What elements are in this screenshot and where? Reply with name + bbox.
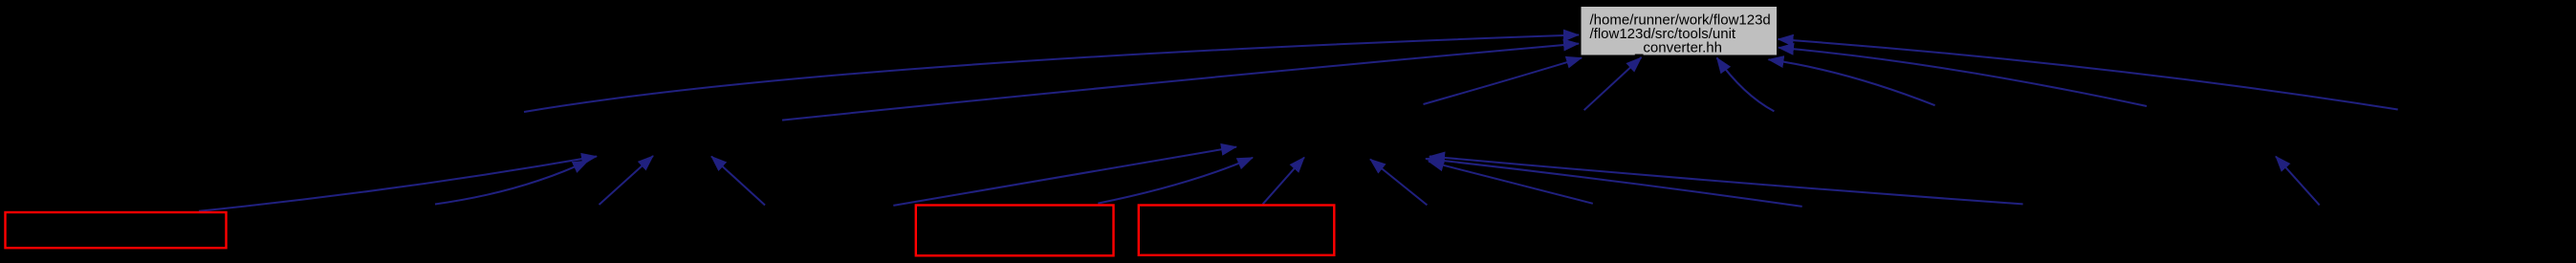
- edge U2: hidden bottom node -> hidden node N1 (left, lower): [435, 161, 588, 204]
- red node 2 (truncated, label hidden): [916, 206, 1114, 256]
- edge S3: hidden bottom node -> hidden node N3 (short): [1429, 162, 1593, 204]
- main node: /home/runner/work/flow123d/flow123d/src/tools/unit_converter.hh: [1581, 7, 1778, 56]
- red node 3 (truncated, label hidden): [1139, 206, 1335, 255]
- edge R2: right hidden node -> main box right edge (lower): [1779, 48, 2147, 106]
- edge M2: hidden node -> main box bottom edge (from right): [1717, 58, 1775, 112]
- edge U3: hidden bottom node -> hidden node N1 (bottom): [600, 156, 654, 205]
- edge Sb: hidden bottom node -> hidden node N3 (middle): [1426, 159, 1802, 207]
- edge T: far right hidden bottom node -> hidden node N4: [2276, 157, 2320, 206]
- edge Sa: right hidden bottom node -> hidden node N3 (long): [1430, 157, 2023, 205]
- edge R3: right hidden node -> main box bottom-right corner: [1769, 59, 1935, 105]
- edge LL1: hidden node N1 -> main box left edge (upper long line): [524, 35, 1579, 113]
- edge R1: far right hidden node -> main box right edge (top): [1779, 39, 2398, 110]
- edge Q: red box 2 -> hidden node N2 (lower left): [1098, 158, 1253, 204]
- edge LL2: hidden node -> main box left edge (lower long line): [782, 44, 1579, 121]
- edge U4: hidden bottom node -> hidden node N1 (bottom right): [711, 157, 765, 206]
- edge P: hidden bottom node -> hidden node N2 (left edge): [893, 147, 1236, 206]
- edge LL3: hidden node -> main box bottom-left corner: [1424, 58, 1583, 105]
- red node 1 (truncated, label hidden): [6, 212, 227, 248]
- svg-text:_converter.hh: _converter.hh: [1634, 40, 1722, 56]
- edge V1: red box 3 -> hidden node N2 (bottom edge): [1263, 158, 1304, 205]
- edge M1: hidden node -> main box bottom edge: [1584, 57, 1642, 110]
- edge V2: hidden bottom node -> hidden node N2 (bottom right): [1370, 160, 1427, 206]
- edge U1: red box 1 -> hidden node N1 (left): [199, 157, 597, 211]
